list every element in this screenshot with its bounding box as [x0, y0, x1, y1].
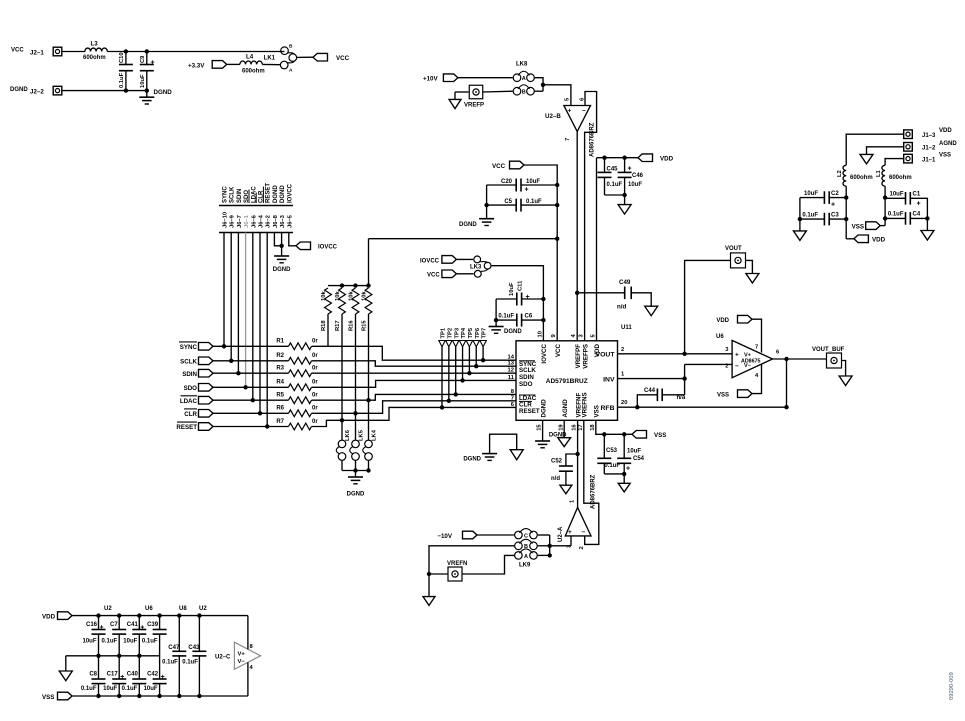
- svg-text:0.1uF: 0.1uF: [119, 72, 125, 88]
- svg-text:VOUT: VOUT: [725, 246, 742, 252]
- wire: [556, 239, 558, 341]
- wire: [456, 273, 473, 275]
- svg-text:TP5: TP5: [468, 327, 474, 338]
- test point TP1: [439, 327, 447, 410]
- net label +10V: [423, 74, 458, 83]
- connector J1-1: [904, 153, 951, 164]
- svg-text:−10V: −10V: [437, 533, 452, 540]
- svg-text:U2: U2: [104, 606, 112, 612]
- wire: [570, 536, 572, 546]
- connector J1-2: [904, 141, 958, 152]
- svg-text:+: +: [161, 674, 165, 681]
- svg-text:V+: V+: [238, 652, 246, 658]
- svg-text:15: 15: [537, 424, 543, 431]
- svg-text:C43: C43: [188, 645, 200, 651]
- resistor R5: [276, 393, 318, 404]
- capacitor C7: [102, 616, 127, 656]
- svg-text:C53: C53: [606, 448, 618, 454]
- svg-text:U6: U6: [716, 334, 724, 340]
- header J6 bar: [219, 232, 293, 234]
- svg-text:J6–9: J6–9: [230, 214, 236, 228]
- svg-text:C11: C11: [518, 280, 524, 291]
- net label -10V: [437, 531, 477, 540]
- svg-text:U6: U6: [145, 606, 153, 612]
- svg-text:AGND: AGND: [562, 399, 569, 418]
- svg-text:R2: R2: [276, 353, 284, 359]
- svg-text:C8: C8: [89, 672, 97, 678]
- net label VCC: [313, 53, 350, 62]
- jumper LK3: [470, 256, 491, 277]
- svg-text:10uF: 10uF: [140, 74, 146, 88]
- svg-text:B: B: [522, 90, 526, 96]
- net label CLR: [184, 409, 213, 418]
- svg-text:600ohm: 600ohm: [83, 55, 106, 61]
- svg-text:11: 11: [508, 375, 515, 381]
- svg-text:DGND: DGND: [273, 185, 279, 203]
- wire: [72, 694, 248, 698]
- svg-text:R1: R1: [276, 339, 284, 345]
- capacitor C52: [551, 454, 578, 485]
- svg-text:AD8676BRZ: AD8676BRZ: [590, 122, 596, 157]
- svg-text:VSS: VSS: [852, 223, 864, 230]
- svg-text:R6: R6: [276, 406, 284, 412]
- svg-text:SYNC: SYNC: [180, 344, 198, 351]
- capacitor C40: [122, 656, 147, 696]
- connector J1-3: [904, 128, 953, 139]
- wire: [604, 472, 626, 484]
- DAC U11 left pin labels: [508, 355, 540, 416]
- svg-text:U2–B: U2–B: [545, 113, 561, 120]
- svg-text:J6–7: J6–7: [237, 215, 243, 228]
- svg-text:VDD: VDD: [872, 237, 886, 244]
- svg-text:AD5791BRUZ: AD5791BRUZ: [546, 378, 588, 385]
- svg-text:TP1: TP1: [441, 327, 447, 338]
- svg-text:+: +: [917, 201, 921, 208]
- svg-text:C45: C45: [607, 167, 619, 173]
- svg-text:TP3: TP3: [454, 327, 460, 338]
- svg-text:C46: C46: [632, 173, 644, 179]
- svg-text:V−: V−: [238, 659, 246, 665]
- svg-text:U8: U8: [179, 606, 187, 612]
- svg-text:10k: 10k: [335, 291, 341, 301]
- capacitor C39: [142, 616, 167, 656]
- svg-text:+: +: [568, 108, 572, 115]
- svg-text:SDO: SDO: [519, 381, 533, 388]
- svg-text:L2: L2: [837, 170, 843, 177]
- net label VSS: [717, 390, 752, 399]
- wire: [265, 233, 269, 429]
- wire: [618, 364, 733, 394]
- wire: [251, 233, 255, 403]
- wire: [585, 92, 597, 342]
- wire: [746, 260, 753, 273]
- ground DGND: [489, 327, 523, 336]
- capacitor C3: [800, 212, 846, 225]
- op-amp U2-A: [558, 474, 597, 549]
- wire: [605, 193, 627, 205]
- wire: [107, 49, 284, 53]
- wire: [63, 88, 150, 92]
- wire: [227, 63, 240, 65]
- capacitor C54: [604, 434, 644, 474]
- net label LDAC: [180, 396, 213, 405]
- svg-text:VDD: VDD: [716, 318, 729, 324]
- wire: [584, 420, 599, 544]
- test point TP5: [466, 327, 474, 375]
- svg-text:LDAC: LDAC: [180, 398, 198, 405]
- svg-text:C16: C16: [86, 622, 98, 628]
- svg-text:LK9: LK9: [519, 563, 531, 569]
- svg-text:C7: C7: [110, 622, 118, 628]
- test point VREFN: [447, 561, 467, 581]
- wire: [575, 420, 579, 507]
- svg-text:U11: U11: [621, 325, 632, 331]
- wire: [213, 386, 289, 388]
- svg-text:VSS: VSS: [42, 694, 54, 701]
- svg-text:−: −: [582, 108, 586, 115]
- wire: [535, 78, 571, 106]
- capacitor C43: [182, 616, 206, 696]
- svg-text:R5: R5: [276, 393, 284, 399]
- svg-text:−: −: [735, 363, 739, 370]
- svg-text:J6–10: J6–10: [223, 212, 229, 228]
- DAC U11 bottom pin labels: [537, 392, 601, 430]
- wire: [542, 420, 544, 441]
- svg-text:C47: C47: [168, 645, 180, 651]
- svg-text:0.1uF: 0.1uF: [142, 639, 158, 645]
- svg-text:2: 2: [725, 364, 728, 370]
- wire: [867, 147, 904, 155]
- svg-text:L4: L4: [246, 54, 254, 61]
- svg-text:C3: C3: [831, 212, 839, 218]
- net label RESET: [176, 422, 213, 431]
- svg-text:0.1uF: 0.1uF: [888, 212, 904, 218]
- DAC U11 top pin labels: [537, 331, 601, 369]
- wire: [213, 412, 289, 414]
- svg-text:DGND: DGND: [459, 222, 477, 228]
- svg-text:C1: C1: [913, 192, 921, 198]
- connector J2-1: [11, 47, 62, 56]
- svg-text:C10: C10: [119, 52, 125, 63]
- svg-text:+: +: [140, 625, 144, 632]
- svg-text:A: A: [524, 554, 528, 560]
- svg-text:C40: C40: [127, 672, 139, 678]
- ground AGND: [560, 485, 572, 494]
- svg-text:0.1uF: 0.1uF: [122, 686, 138, 692]
- svg-text:VCC: VCC: [492, 163, 506, 170]
- ground AGND: [793, 231, 806, 241]
- svg-text:J6–4: J6–4: [259, 214, 265, 228]
- wire: [262, 63, 280, 65]
- svg-text:INV: INV: [603, 376, 615, 383]
- svg-text:10uF: 10uF: [123, 639, 137, 645]
- svg-text:U2–A: U2–A: [558, 526, 564, 542]
- net label VDD: [42, 612, 72, 621]
- svg-text:RFB: RFB: [601, 405, 615, 412]
- svg-text:IOVCC: IOVCC: [287, 183, 293, 203]
- svg-text:C49: C49: [619, 279, 631, 286]
- ground tie DGND: [463, 434, 523, 462]
- header J6 net names: [223, 183, 294, 203]
- svg-text:R3: R3: [276, 366, 284, 372]
- svg-text:10uF: 10uF: [628, 182, 642, 188]
- svg-text:DGND: DGND: [540, 399, 547, 418]
- svg-text:0.1uF: 0.1uF: [182, 660, 198, 666]
- svg-text:DGND: DGND: [10, 87, 28, 93]
- svg-text:B: B: [289, 44, 293, 50]
- wire: [752, 365, 762, 394]
- DAC U11 AD5791BRUZ: [516, 325, 632, 420]
- svg-text:SDIN: SDIN: [237, 189, 243, 203]
- capacitor C10: [119, 52, 133, 91]
- capacitor C11: [496, 280, 543, 306]
- svg-text:R4: R4: [276, 380, 284, 386]
- svg-text:AD8676BRZ: AD8676BRZ: [591, 474, 597, 509]
- svg-text:DGND: DGND: [463, 456, 481, 462]
- jumper LK8: [513, 62, 534, 96]
- capacitor C41: [123, 616, 146, 656]
- svg-text:10k: 10k: [321, 291, 327, 301]
- svg-text:C42: C42: [147, 672, 159, 678]
- wire: [312, 401, 517, 414]
- svg-text:12: 12: [508, 368, 514, 374]
- wire: [312, 372, 517, 374]
- jumper LK1: [264, 44, 297, 74]
- wire: [66, 654, 160, 658]
- wire: [492, 266, 546, 341]
- svg-text:SDO: SDO: [184, 385, 198, 392]
- svg-text:10k: 10k: [361, 291, 367, 301]
- jumper LK5: [350, 413, 365, 460]
- svg-text:VDD: VDD: [42, 614, 56, 621]
- wire: [685, 353, 733, 355]
- capacitor C46: [618, 158, 644, 195]
- capacitor C47: [162, 616, 186, 696]
- inductor L3: [83, 41, 107, 61]
- wire: [243, 233, 247, 390]
- svg-text:J1–3: J1–3: [922, 133, 936, 139]
- svg-text:R15: R15: [361, 320, 367, 331]
- svg-text:2: 2: [621, 347, 624, 353]
- svg-text:10: 10: [537, 331, 543, 337]
- ground AGND: [921, 231, 934, 241]
- svg-text:C9: C9: [140, 55, 146, 63]
- wire: [342, 461, 371, 473]
- svg-text:TP2: TP2: [447, 328, 453, 339]
- resistor R1: [276, 339, 318, 350]
- svg-text:LK4: LK4: [372, 429, 378, 441]
- svg-text:09290-009: 09290-009: [949, 672, 955, 700]
- capacitor C17: [103, 656, 126, 696]
- wire: [462, 555, 514, 574]
- ground AGND: [839, 376, 852, 386]
- wire: [353, 314, 357, 415]
- wire: [455, 92, 469, 99]
- svg-text:+: +: [525, 187, 529, 194]
- svg-text:R17: R17: [335, 320, 341, 331]
- ground AGND: [449, 99, 461, 108]
- wire: [258, 233, 262, 416]
- svg-text:VOUT_BUF: VOUT_BUF: [812, 347, 845, 353]
- wire: [289, 233, 296, 246]
- wire: [312, 407, 517, 426]
- svg-text:J2–2: J2–2: [30, 89, 44, 96]
- capacitor C8: [81, 656, 106, 696]
- svg-text:600ohm: 600ohm: [889, 175, 912, 181]
- ground DGND: [347, 471, 365, 498]
- capacitor C49: [577, 279, 651, 311]
- IC reference labels: [104, 606, 207, 612]
- svg-text:J6–6: J6–6: [251, 214, 257, 228]
- svg-text:0.1uF: 0.1uF: [498, 314, 514, 320]
- wire: [213, 345, 289, 347]
- net label SDIN: [182, 369, 213, 377]
- ground DGND: [273, 246, 291, 273]
- svg-text:0.1uF: 0.1uF: [802, 212, 818, 218]
- wire: [484, 185, 488, 219]
- svg-text:0.1uF: 0.1uF: [526, 199, 542, 205]
- net label VSS: [42, 692, 72, 701]
- net label SDO: [184, 384, 213, 392]
- svg-text:VREFP: VREFP: [464, 103, 484, 109]
- wire: [247, 662, 249, 696]
- svg-text:VSS: VSS: [939, 153, 951, 159]
- capacitor C2: [800, 191, 846, 209]
- svg-text:LK3: LK3: [470, 264, 482, 270]
- svg-text:U2–C: U2–C: [215, 654, 231, 660]
- svg-text:C: C: [524, 533, 528, 539]
- wire: [483, 90, 513, 93]
- svg-text:SDIN: SDIN: [182, 371, 197, 378]
- wire: [846, 238, 854, 240]
- test point VOUT_BUF: [812, 347, 845, 368]
- svg-text:J1–2: J1–2: [922, 146, 936, 152]
- wire: [427, 546, 514, 597]
- svg-text:VDD: VDD: [660, 156, 674, 163]
- wire: [458, 77, 513, 79]
- wire: [312, 394, 517, 400]
- svg-text:IOVCC: IOVCC: [541, 343, 548, 363]
- svg-text:0r: 0r: [312, 366, 318, 372]
- ground DGND: [535, 441, 550, 448]
- svg-text:RESET: RESET: [266, 183, 272, 203]
- resistor R3: [276, 366, 318, 377]
- wire: [596, 158, 598, 341]
- wire: [883, 186, 887, 226]
- jumper LK6: [336, 420, 351, 460]
- svg-text:AD8675: AD8675: [741, 359, 760, 365]
- svg-text:16: 16: [572, 424, 578, 431]
- wire: [274, 233, 283, 249]
- ground AGND: [618, 483, 630, 492]
- svg-text:IOVCC: IOVCC: [318, 245, 338, 251]
- svg-text:C44: C44: [644, 388, 656, 394]
- wire: [213, 360, 289, 362]
- header J6 separator: [219, 205, 293, 207]
- svg-text:0.1uF: 0.1uF: [607, 182, 623, 188]
- net label VDD: [638, 154, 674, 163]
- net label VSS: [852, 222, 881, 231]
- capacitor C42: [144, 656, 167, 696]
- connector J2-2: [10, 86, 62, 95]
- wire: [312, 346, 517, 360]
- svg-text:0r: 0r: [312, 419, 318, 425]
- wire: [222, 233, 226, 349]
- svg-text:10uF: 10uF: [103, 686, 117, 692]
- wire: [575, 132, 579, 342]
- svg-text:U2: U2: [199, 606, 207, 612]
- wire: [366, 314, 370, 402]
- svg-text:RESET: RESET: [519, 408, 540, 415]
- wire: [596, 420, 632, 436]
- svg-text:A: A: [289, 68, 293, 74]
- resistor R2: [276, 353, 318, 364]
- svg-text:+: +: [735, 352, 739, 359]
- svg-text:0r: 0r: [312, 380, 318, 386]
- svg-text:VSS: VSS: [654, 432, 666, 439]
- svg-text:+: +: [626, 466, 630, 473]
- svg-text:10uF: 10uF: [526, 179, 540, 185]
- wire: [312, 361, 517, 366]
- svg-text:+: +: [100, 625, 104, 632]
- svg-text:VCC: VCC: [336, 55, 350, 62]
- test point VREFP: [464, 85, 484, 108]
- resistor R6: [276, 406, 318, 417]
- svg-text:SCLK: SCLK: [519, 367, 536, 374]
- capacitor C45: [598, 158, 623, 195]
- svg-text:19: 19: [558, 424, 564, 431]
- capacitor C1: [885, 192, 927, 219]
- svg-text:IOVCC: IOVCC: [420, 258, 440, 264]
- svg-text:VREFN: VREFN: [447, 561, 467, 567]
- svg-text:LK1: LK1: [264, 56, 276, 62]
- capacitor C4: [885, 212, 927, 225]
- svg-text:SCLK: SCLK: [180, 358, 197, 365]
- svg-text:10uF: 10uF: [144, 686, 158, 692]
- capacitor C20: [487, 179, 558, 194]
- svg-text:C6: C6: [525, 314, 533, 320]
- svg-text:DGND: DGND: [280, 185, 286, 203]
- wire: [563, 420, 565, 437]
- svg-text:RESET: RESET: [176, 424, 197, 431]
- svg-text:10uF: 10uF: [889, 192, 903, 198]
- net label +3.3V: [188, 61, 227, 70]
- svg-text:+3.3V: +3.3V: [188, 62, 205, 69]
- net label IOVCC: [420, 256, 456, 265]
- svg-text:C17: C17: [107, 672, 119, 678]
- svg-text:TP4: TP4: [461, 327, 467, 338]
- wire: [312, 380, 517, 387]
- ground AGND: [59, 671, 72, 681]
- svg-text:17: 17: [578, 424, 584, 430]
- ground DGND: [459, 219, 494, 228]
- svg-text:10uF: 10uF: [82, 639, 96, 645]
- svg-text:LK8: LK8: [516, 62, 528, 68]
- svg-text:0.1uF: 0.1uF: [81, 686, 97, 692]
- svg-text:C2: C2: [831, 191, 839, 197]
- svg-text:C52: C52: [551, 459, 563, 465]
- svg-text:DGND: DGND: [154, 89, 173, 96]
- svg-text:+: +: [831, 202, 835, 209]
- svg-text:AGND: AGND: [939, 141, 957, 147]
- op-amp U2-C: [215, 642, 261, 671]
- wire: [236, 233, 240, 376]
- svg-text:0r: 0r: [312, 393, 318, 399]
- net label SYNC: [179, 342, 213, 351]
- wire: [880, 225, 885, 227]
- svg-text:10uF: 10uF: [509, 282, 515, 296]
- test point TP7: [480, 328, 488, 363]
